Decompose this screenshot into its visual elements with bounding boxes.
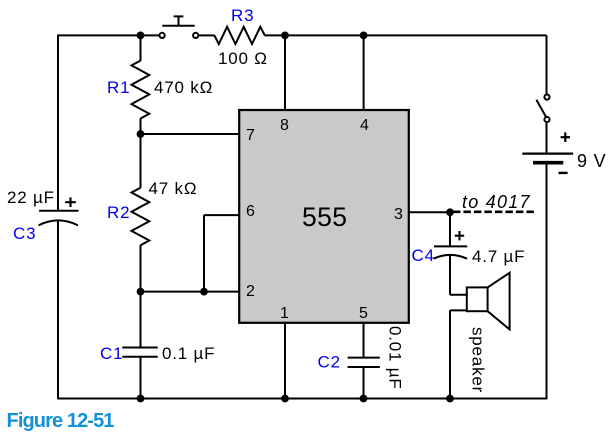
node junction pin 1 bottom xyxy=(281,395,289,403)
svg-text:1: 1 xyxy=(280,305,289,322)
svg-text:0.1 µF: 0.1 µF xyxy=(162,344,215,363)
capacitor C1 xyxy=(122,292,157,399)
node junction pin6 branch on pin2 wire xyxy=(200,288,208,296)
svg-text:Figure 12-51: Figure 12-51 xyxy=(7,410,115,432)
wire bottom rail xyxy=(58,398,547,400)
svg-text:4: 4 xyxy=(360,117,369,134)
node junction top at pin 8 xyxy=(281,32,289,40)
resistor R3 zigzag xyxy=(214,27,264,44)
wire pin 6 branch xyxy=(204,215,239,292)
svg-text:5: 5 xyxy=(359,305,368,322)
toggle switch xyxy=(536,95,549,123)
wire right rail xyxy=(546,35,548,399)
node junction top at R1 xyxy=(137,32,145,40)
svg-text:4.7 µF: 4.7 µF xyxy=(472,247,525,266)
capacitor C4 electrolytic xyxy=(434,212,468,294)
svg-text:to 4017: to 4017 xyxy=(462,192,531,212)
wire pin 4 xyxy=(363,35,365,110)
svg-text:8: 8 xyxy=(280,117,289,134)
plus sign C3 xyxy=(65,197,76,207)
IC U1 555 timer body xyxy=(239,110,409,323)
pushbutton switch xyxy=(160,16,199,38)
svg-text:0.01 µF: 0.01 µF xyxy=(386,326,405,390)
node junction R2/C1 pin2 xyxy=(137,288,145,296)
node junction speaker bottom xyxy=(446,395,454,403)
node junction R1/R2 pin7 xyxy=(137,130,145,138)
plus sign C4 xyxy=(455,231,464,240)
capacitor C2 xyxy=(348,323,380,399)
svg-text:C3: C3 xyxy=(13,224,36,243)
svg-text:R3: R3 xyxy=(231,6,254,25)
wire pin 8 xyxy=(284,35,286,110)
battery 9V xyxy=(522,154,573,163)
wire dashed to 4017 xyxy=(453,211,534,214)
wire pin 2 xyxy=(141,291,240,293)
wire top rail xyxy=(58,34,547,36)
svg-text:6: 6 xyxy=(246,203,255,220)
node junction pin 3 xyxy=(446,208,454,216)
svg-text:9 V: 9 V xyxy=(577,151,606,171)
svg-text:speaker: speaker xyxy=(469,327,488,393)
svg-text:470 kΩ: 470 kΩ xyxy=(154,78,213,97)
wire left rail xyxy=(57,35,59,400)
svg-text:R2: R2 xyxy=(107,203,130,222)
wire pin 1 xyxy=(284,323,286,399)
svg-text:C4: C4 xyxy=(412,246,435,265)
svg-text:22 µF: 22 µF xyxy=(7,188,55,207)
svg-text:C2: C2 xyxy=(318,353,341,372)
plus sign battery xyxy=(561,132,570,142)
svg-text:555: 555 xyxy=(302,202,347,232)
svg-text:3: 3 xyxy=(394,206,403,223)
svg-text:C1: C1 xyxy=(100,344,123,363)
svg-text:2: 2 xyxy=(246,283,255,300)
svg-text:100 Ω: 100 Ω xyxy=(218,49,268,68)
node junction C2 bottom xyxy=(360,395,368,403)
node junction top at pin 4 xyxy=(360,32,368,40)
svg-text:R1: R1 xyxy=(107,78,130,97)
capacitor C3 electrolytic xyxy=(39,211,79,226)
minus sign battery xyxy=(559,172,568,174)
resistor R2 xyxy=(132,134,150,292)
svg-text:7: 7 xyxy=(246,127,255,144)
node junction C1 bottom xyxy=(137,395,145,403)
wire pin 7 xyxy=(141,133,240,135)
svg-text:47 kΩ: 47 kΩ xyxy=(149,179,198,198)
resistor R1 xyxy=(132,35,150,134)
speaker xyxy=(450,273,510,399)
wire pin 3 output xyxy=(409,211,450,213)
